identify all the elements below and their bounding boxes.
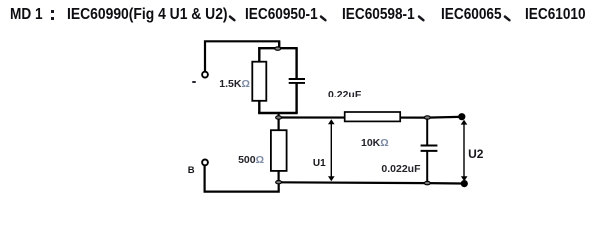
title text IEC61010	[525, 7, 586, 23]
label 0.022uF	[381, 164, 420, 174]
wire capacitor C2 top lead	[426, 118, 428, 146]
terminal B open circle	[202, 160, 208, 166]
wire R-C loop bottom rail	[258, 112, 298, 114]
label 0.22uF clipped	[328, 90, 361, 97]
ideographic comma 4	[503, 14, 513, 24]
label 10K ohm	[361, 138, 389, 148]
label U2	[468, 149, 483, 159]
label U1	[313, 159, 326, 168]
wire capacitor C1 bottom lead	[295, 83, 297, 113]
wire top input drop stub	[278, 41, 280, 48]
ideographic comma 1	[228, 14, 238, 24]
wire bottom left from terminal B	[205, 165, 279, 191]
wire resistor R1 top lead	[258, 48, 260, 62]
node junction top of R-C loop	[275, 47, 281, 50]
wire middle rail to right	[279, 116, 459, 119]
title text IEC60990	[67, 7, 228, 23]
wire 500 ohm bottom lead	[278, 171, 280, 182]
title text IEC60065	[441, 7, 502, 23]
ideographic comma 3	[417, 14, 427, 24]
title text MD 1	[10, 7, 43, 23]
measure arrow U1 bottom head	[328, 176, 335, 181]
capacitor C2 bottom plate	[421, 150, 438, 152]
wire capacitor C2 bottom lead	[426, 151, 428, 183]
capacitor C1 bottom plate	[289, 82, 305, 84]
wire input top from terminal A up and right	[205, 41, 279, 71]
node junction top of C2	[424, 116, 430, 119]
ideographic comma 2	[319, 14, 329, 24]
wire resistor R1 bottom lead	[258, 101, 260, 113]
measure arrow U2 line	[463, 123, 465, 179]
measure arrow U1 line	[330, 122, 332, 178]
resistor R2 500 ohm body	[271, 130, 287, 171]
label B	[188, 167, 195, 175]
measure arrow U2 top head	[461, 120, 468, 125]
resistor R1 1.5K body	[252, 62, 266, 101]
node junction bottom left	[276, 181, 282, 184]
measure arrow U2 bottom head	[461, 176, 468, 181]
terminal U2 bottom black dot	[461, 180, 468, 187]
wire capacitor C1 top lead	[295, 48, 297, 79]
measure arrow U1 top head	[328, 119, 335, 124]
wire bottom rail	[279, 182, 462, 183]
node junction below R-C loop	[276, 116, 282, 119]
wire stub from loop bottom to node	[278, 113, 280, 119]
full-width colon	[51, 10, 54, 13]
label minus mark at input terminal	[192, 81, 196, 83]
title text IEC60950-1	[245, 7, 318, 23]
terminal U2 top black dot	[458, 113, 465, 120]
wire R-C loop top rail	[258, 47, 298, 49]
capacitor C1 top plate	[289, 78, 305, 80]
wire 500 ohm top lead	[278, 118, 280, 132]
label 500 ohm	[238, 155, 264, 165]
capacitor C2 top plate	[421, 145, 438, 147]
title text IEC60598-1	[342, 7, 415, 23]
resistor R3 10K body	[345, 112, 401, 121]
node junction bottom of C2	[424, 181, 430, 184]
label 1.5K ohm	[219, 79, 250, 89]
terminal A open circle	[202, 72, 208, 78]
